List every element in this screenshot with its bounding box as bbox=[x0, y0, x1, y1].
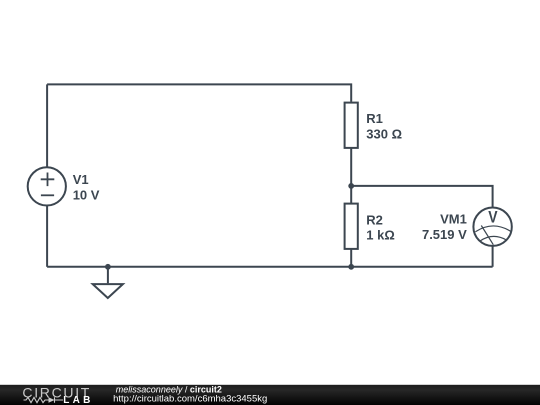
svg-text:R2: R2 bbox=[366, 212, 383, 227]
node: R2 bottom junction dot bbox=[348, 264, 354, 270]
svg-text:7.519 V: 7.519 V bbox=[422, 227, 467, 242]
wire: bottom rail (ground net) bbox=[47, 266, 493, 268]
logo resistor zigzag and diode glyph bbox=[24, 397, 64, 402]
svg-text:330 Ω: 330 Ω bbox=[366, 126, 402, 141]
ground symbol bbox=[93, 284, 123, 298]
wire: top rail from V1 to R1 top lead bbox=[47, 84, 351, 101]
resistor R2 bbox=[345, 204, 358, 249]
svg-text:LAB: LAB bbox=[63, 395, 93, 405]
voltage source V1 bbox=[28, 167, 66, 205]
wire: left rail upper (top rail to V1 plus terminal) bbox=[46, 84, 48, 167]
svg-text:V1: V1 bbox=[73, 172, 89, 187]
wire: R2 bottom lead to bottom rail bbox=[350, 249, 352, 267]
node: ground junction dot bbox=[105, 264, 111, 270]
svg-text:VM1: VM1 bbox=[440, 211, 467, 226]
svg-text:http://circuitlab.com/c6mha3c3: http://circuitlab.com/c6mha3c3455kg bbox=[113, 394, 267, 405]
wire: R1 bottom lead to node A bbox=[350, 148, 352, 186]
svg-text:V: V bbox=[488, 208, 498, 227]
svg-text:10 V: 10 V bbox=[73, 187, 100, 202]
ground stub wire bbox=[107, 267, 109, 284]
node A junction dot bbox=[348, 183, 354, 189]
wire: node A to voltmeter top bbox=[351, 186, 492, 208]
wire: voltmeter bottom lead to bottom rail bbox=[492, 246, 494, 267]
footer bar background bbox=[0, 385, 540, 405]
wire: left rail lower (V1 minus terminal to bottom rail) bbox=[46, 206, 48, 267]
wire: node A to R2 top bbox=[350, 186, 352, 204]
resistor R1 bbox=[345, 103, 358, 148]
svg-text:1 kΩ: 1 kΩ bbox=[366, 227, 395, 242]
svg-text:R1: R1 bbox=[366, 111, 383, 126]
voltmeter VM1 bbox=[473, 208, 511, 246]
